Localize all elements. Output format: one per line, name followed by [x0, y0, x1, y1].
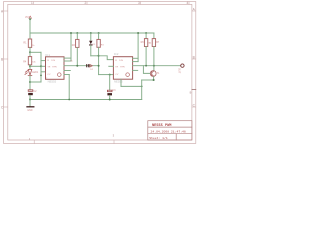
diode D2 [86, 64, 92, 67]
frame column tick 1 top [33, 2, 35, 5]
junction C3 at ground rail [109, 99, 111, 101]
resistor R3 [97, 39, 100, 47]
wire D1 to THR net [90, 46, 92, 56]
wire IC2 pin8 stub [133, 57, 139, 59]
wire node to IC1 tie [30, 51, 41, 53]
svg-text:R3: R3 [101, 44, 105, 46]
wire bottom ground rail [30, 99, 142, 101]
svg-text:1k: 1k [32, 45, 35, 47]
svg-text:Sheet: 1/1: Sheet: 1/1 [149, 136, 168, 140]
junction C3 top [109, 74, 111, 76]
svg-text:D2: D2 [90, 69, 94, 71]
frame row tick B2 right [192, 89, 196, 91]
svg-text:3: 3 [113, 133, 115, 137]
wire IC2 OUT net to pad [133, 65, 181, 67]
wire IC1 GND drop [68, 75, 70, 100]
capacitor C3 plate 2 [107, 93, 112, 95]
wire emitter horizontal [142, 79, 154, 81]
junction IC2 VCC tie at rail [137, 32, 139, 34]
wire node to IC1 tie bottom [30, 81, 41, 83]
frame column tick 2 top [86, 2, 88, 5]
svg-text:R DIS: R DIS [115, 60, 123, 62]
frame column tick 3 top [140, 2, 142, 5]
svg-text:R7: R7 [156, 41, 160, 44]
resistor R2 [76, 39, 79, 47]
frame column tick 1 bottom [33, 140, 35, 143]
wire IC1 pin5 short stub [64, 70, 70, 72]
wire TRG node to C3 [109, 75, 111, 91]
wire emitter down [153, 77, 155, 80]
title block outline [148, 121, 192, 140]
wire rail to R3 [98, 33, 100, 39]
wire IC1 tie vertical [40, 52, 42, 82]
svg-text:4: 4 [187, 1, 189, 5]
frame row tick C right [192, 106, 196, 108]
svg-text:IC1: IC1 [45, 53, 50, 57]
junction D1 at rail [90, 32, 92, 34]
wire collector [153, 66, 155, 71]
wire R2 to DIS net [76, 48, 78, 66]
junction R2 at rail [76, 32, 78, 34]
junction node R1/R4 [29, 51, 31, 53]
IC1 output bubble [58, 73, 62, 77]
wire top VCC rail [30, 32, 154, 34]
svg-text:1: 1 [31, 1, 33, 5]
svg-text:B: B [190, 90, 192, 94]
junction ground rail left [29, 99, 31, 101]
capacitor C3 plate 1 [107, 90, 112, 92]
wire rail to D1 [90, 33, 92, 41]
svg-text:CV: CV [115, 74, 119, 76]
wire R1 to R4 [29, 47, 31, 56]
svg-text:TR THR: TR THR [47, 66, 57, 68]
junction node LED/C2 [29, 81, 31, 83]
svg-text:OUT: OUT [178, 68, 181, 74]
frame row tick A left [4, 10, 8, 12]
wire TRG node to IC2 [99, 74, 114, 76]
svg-text:1k: 1k [149, 42, 152, 44]
svg-text:CV: CV [47, 74, 51, 76]
svg-text:TR THR: TR THR [115, 66, 125, 68]
resistor R6 [144, 39, 147, 47]
junction R6 OUT net [145, 65, 147, 67]
wire IC2 pin4 stub [133, 61, 139, 63]
wire base jog [143, 66, 150, 74]
op-amp IC2 box [113, 57, 132, 79]
svg-text:R DIS: R DIS [47, 60, 55, 62]
frame column tick 4 top [188, 2, 190, 5]
svg-text:2: 2 [46, 77, 47, 79]
IC2 output bubble [126, 73, 130, 77]
diode D1 [89, 41, 92, 46]
svg-text:3: 3 [138, 1, 140, 5]
junction R2 DIS net [76, 65, 78, 67]
wire IC1 pin8 stub [64, 57, 71, 59]
wire rail to R6 [145, 33, 147, 39]
op-amp IC1 box [46, 57, 65, 80]
svg-text:24.04.2008 21:47:48: 24.04.2008 21:47:48 [151, 129, 186, 133]
svg-text:C2: C2 [33, 90, 37, 93]
wire IC1 DIS net [64, 65, 99, 67]
junction tie lower [40, 75, 42, 77]
wire GND vertical to rail [141, 80, 143, 100]
svg-text:D1: D1 [93, 44, 97, 46]
wire R7 to collector node [153, 47, 155, 66]
svg-text:LED1: LED1 [32, 71, 39, 74]
wire D1 horizontal to R3 lead [91, 55, 99, 57]
frame row tick C left [4, 106, 8, 108]
junction tie at CV [40, 65, 42, 67]
wire rail to R1 [29, 33, 31, 39]
junction IC1 VCC tie at rail [70, 32, 72, 34]
svg-text:B: B [193, 55, 195, 59]
svg-text:C3: C3 [112, 89, 116, 92]
svg-text:GND: GND [27, 109, 33, 112]
svg-text:IC2: IC2 [114, 52, 119, 56]
svg-text:R2: R2 [72, 44, 76, 47]
frame row tick B right [192, 58, 196, 60]
wire C3 to ground rail [109, 95, 111, 99]
transistor T1 [150, 71, 156, 77]
svg-text:2: 2 [85, 1, 87, 5]
svg-text:NE555 PWM: NE555 PWM [152, 124, 171, 128]
wire IC1 GND pin stub [64, 74, 69, 76]
svg-text:R4: R4 [23, 60, 27, 63]
wire CV node to IC1 [30, 65, 41, 67]
junction R3 at rail [98, 32, 100, 34]
wire IC1 pin THR stub [41, 71, 46, 73]
svg-text:10k: 10k [32, 61, 36, 63]
supply symbol VCC [29, 16, 32, 18]
wire VCC to rail [29, 19, 31, 33]
pad OUT [181, 64, 184, 67]
svg-text:R1: R1 [23, 42, 27, 45]
wire R6 to OUT net [145, 47, 147, 66]
wire IC2 VCC tie vertical [137, 33, 139, 62]
junction GND corner [141, 86, 143, 88]
frame inner border [8, 4, 192, 140]
svg-text:NE555: NE555 [48, 80, 57, 84]
junction node CV [29, 65, 31, 67]
junction R6 at rail [145, 32, 147, 34]
frame outer border [4, 2, 196, 144]
capacitor C2 plate 2 [28, 93, 33, 95]
junction DIS-D2 node [98, 65, 100, 67]
junction emitter [153, 79, 155, 81]
resistor R1 [28, 39, 31, 47]
LED LED1 [25, 69, 32, 75]
wire R4 to LED1 [29, 65, 31, 69]
wire rail to GND symbol [29, 100, 31, 107]
wire IC2 pin5 short stub [133, 69, 138, 71]
svg-text:B: B [1, 58, 3, 62]
wire R3 vertical net [98, 47, 100, 74]
ground symbol GND [27, 106, 34, 108]
resistor R4 [28, 57, 31, 65]
wire IC1 pin TRG stub [41, 60, 46, 62]
wire C2 to ground rail [29, 95, 31, 99]
svg-text:1k: 1k [70, 60, 73, 62]
wire jog to IC2 THR pin [99, 56, 114, 60]
wire IC2 GND drop [120, 79, 122, 86]
junction THR node [98, 55, 100, 57]
svg-text:R6: R6 [141, 41, 145, 44]
svg-text:NE555: NE555 [114, 79, 123, 83]
wire IC1 VCC tie vertical [70, 33, 72, 61]
svg-text:T1: T1 [157, 72, 160, 75]
junction at VCC [29, 18, 31, 20]
frame row tick A right [192, 10, 196, 12]
wire rail corner to R7 [153, 33, 155, 39]
resistor R7 [152, 39, 155, 47]
wire IC1 pin4 stub [64, 60, 71, 62]
capacitor C2 plate 1 [28, 90, 33, 92]
wire LED1 to C2 [29, 76, 31, 90]
wire IC1 pin CV stub [41, 65, 46, 67]
wire IC2 pin CV short stub [109, 65, 114, 67]
wire IC2 GND horizontal [121, 85, 142, 87]
frame row tick B left [4, 58, 8, 60]
frame column tick 2 bottom [113, 140, 115, 143]
junction collector OUT node [153, 65, 155, 67]
wire rail to R2 [76, 33, 78, 39]
junction IC1 GND at rail [68, 99, 70, 101]
